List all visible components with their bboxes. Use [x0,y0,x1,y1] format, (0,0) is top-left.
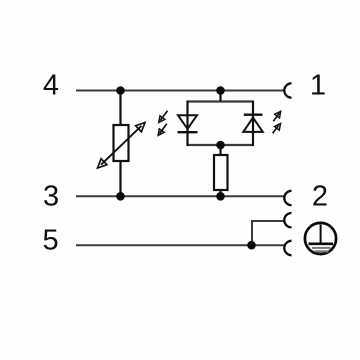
junction LED block bottom / resistor [216,141,225,150]
LED V2 emission arrow 2 [273,125,279,133]
PE earth symbol circle [305,223,336,254]
LED block top wire [188,100,254,102]
LED block bottom wire [188,144,254,146]
PE earth bar 2 [312,247,331,249]
junction top rail / varistor [116,86,125,95]
svg-text:4: 4 [43,70,59,102]
svg-text:1: 1 [310,70,326,102]
varistor arrowhead bottom-left [98,159,107,168]
junction middle rail / varistor [116,192,125,201]
wire PE stub horizontal [252,220,284,222]
wire pin5 (bottom rail) [76,244,284,246]
svg-text:5: 5 [43,225,59,257]
LED V1 emission arrow 1 [160,111,167,121]
LED block left branch wire [186,101,188,147]
LED V1 (left, cathode down) triangle [178,115,197,129]
wire top rail to LED block [219,91,221,102]
varistor arrowhead top-right [136,123,145,132]
wire varistor branch vertical [119,91,121,197]
junction top rail / LED block [216,86,225,95]
varistor diagonal arrow shaft [101,126,142,165]
resistor R1 body [214,155,228,190]
LED V2 (right, cathode up) cathode bar [244,113,263,115]
wire pin4 to pin1 (top rail) [76,90,284,92]
contact socket pin 2 [284,191,291,205]
LED V2 emission arrow 1 [273,113,279,121]
LED V1 cathode bar [178,131,198,133]
varistor RU body [114,125,129,161]
wire PE stub vertical [251,220,253,245]
wire LED block to resistor [219,145,221,155]
svg-text:3: 3 [43,180,59,212]
PE earth vertical stroke [320,225,322,244]
wire pin3 to pin2 (middle rail) [76,195,284,197]
contact socket PE upper [284,213,291,227]
junction bottom rail / PE stub [247,241,256,250]
contact socket PE lower [284,241,291,255]
LED block right branch wire [252,101,254,147]
LED V2 triangle [243,118,262,132]
contact socket pin 1 [284,83,291,97]
junction middle rail / resistor [216,192,225,201]
svg-text:2: 2 [312,181,328,213]
wire resistor to middle rail [219,190,221,197]
PE earth bar 3 [315,250,329,252]
LED V1 emission arrow 2 [160,124,167,134]
PE earth bar 1 [309,243,334,246]
